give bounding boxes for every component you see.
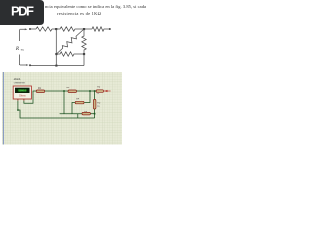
wire R2 to R3 [77,90,97,92]
ohmmeter U1 [13,86,31,99]
ohmmeter labels [14,77,21,81]
label R5 [97,103,101,105]
terminal dot top-left [29,28,31,30]
svg-text:ohm1: ohm1 [14,77,21,81]
resistor R1 [36,27,52,31]
label R3 [97,87,101,89]
wire bottom drop x78 [77,114,79,118]
junction dot R5 bottom [94,113,96,115]
resistor R6 mid [56,52,84,56]
label R1 [38,88,42,90]
label R4 [76,99,80,101]
resistor R2 [68,90,77,93]
terminal dot bottom-left [29,64,31,66]
value label 1k (R5) [97,106,100,108]
terminal arrow right [104,90,108,92]
junction dot top rail at 94.6 [94,90,96,92]
svg-text:OHMMETER: OHMMETER [14,82,26,84]
wire R1 to R2 [45,90,68,92]
resistor R5 vertical [82,29,86,54]
arrowhead top [25,28,28,30]
bottom arrow wire [20,63,27,66]
wires [18,91,96,118]
arrowhead bottom [26,64,29,66]
junction dot left pin corner [17,109,19,111]
top wire [30,28,36,30]
terminal dot right end [109,28,111,30]
wire R5 bottom pin junction [94,109,96,118]
resistor R6 bottom [82,112,90,115]
wire R4 left stub [72,103,75,114]
wire R1-A [52,28,56,30]
node C [55,53,57,55]
wire left pin to bottom rail [18,101,95,118]
wire D-bottom [83,54,85,66]
resistor R2 [56,27,84,31]
port bracket left [19,30,21,41]
resistor R1 [36,90,45,93]
svg-text:Ohms: Ohms [19,95,26,98]
junction dot top rail at 64 [63,90,65,92]
junction dot top rail at 90 [89,90,91,92]
resistor R4 diagonal [56,29,84,54]
node D [83,53,85,55]
page background [0,0,149,198]
label R_eq [15,46,24,52]
wire riser R4 right [84,91,90,103]
blue sheet border [2,72,4,145]
PDF badge [0,0,44,25]
value label 1k (R3) [97,93,100,95]
wire Rb right to junction [90,113,94,115]
wire B-R3 [84,28,92,30]
resistor R3 [92,27,110,31]
wire right pin to top rail [24,91,36,103]
resistor R5 (vertical) [93,99,96,109]
wire R5 top pin [94,91,96,99]
node A [55,28,57,30]
ohmmeter pins [18,99,24,101]
green sheet [2,72,122,145]
label R2 [67,87,71,89]
svg-text:resistencia es de 1KΩ: resistencia es de 1KΩ [57,11,102,16]
document text line 1 [45,4,146,16]
svg-text:1000.0: 1000.0 [19,90,27,93]
top arrow wire [20,28,26,31]
resistor R4 [75,101,84,104]
wire A-C vertical [55,29,57,66]
resistor R3 [96,90,103,93]
bottom wire [30,65,84,67]
node bottom [55,65,57,67]
wire junction64 down [60,91,82,114]
ohmmeter display [15,88,30,93]
svg-text:PDF: PDF [11,3,34,18]
label R6 [84,111,88,113]
node B [83,28,85,30]
